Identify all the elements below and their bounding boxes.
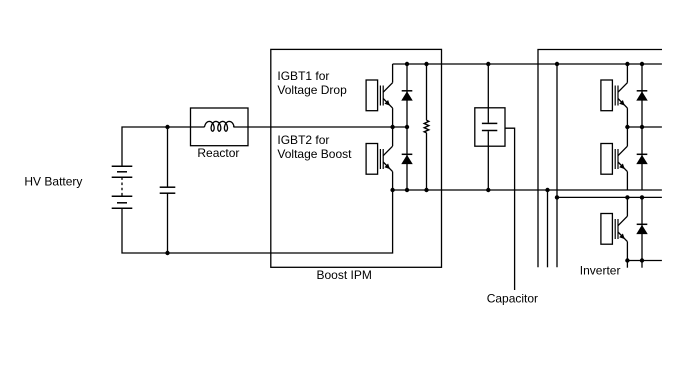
wire: leg3 bottom rail y=260.5 — [627, 260, 662, 262]
wire: coil to IGBT midpoint node — [233, 126, 407, 128]
node: phase U / diode — [640, 125, 644, 129]
diode D3 (inverter leg 1) — [637, 91, 648, 101]
wire: inverter leg 2 diode rail — [641, 127, 643, 190]
filter capacitor C1 — [160, 187, 176, 193]
node: leg3 rail to DC+ bus — [555, 195, 559, 199]
node: DC+ / capacitor C2 — [486, 62, 490, 66]
wire: inverter leg 3 diode rail — [641, 197, 643, 260]
wire: freewheel diode leg — [406, 64, 408, 190]
node: phase U / IGBT — [625, 125, 629, 129]
wire: inverter leg 1 IGBT rail — [626, 64, 628, 83]
node: DC+ / leg1 IGBT — [625, 62, 629, 66]
node: midpoint at IGBT rail — [390, 125, 394, 129]
node: DC+ bus junction — [555, 62, 559, 66]
IGBT Q3 (inverter leg 1) — [601, 80, 628, 111]
wire: inverter leg 3 IGBT rail — [626, 197, 628, 216]
IGBT Q1 (IGBT1 for voltage drop) — [366, 80, 393, 111]
node: leg3 bottom / diode — [640, 258, 644, 262]
svg-text:Boost IPM: Boost IPM — [317, 268, 372, 282]
IGBT Q2 (IGBT2 for voltage boost) — [366, 144, 393, 175]
bus bar: DC+ drop x=557 — [556, 64, 558, 267]
svg-text:Inverter: Inverter — [580, 264, 621, 278]
node: leg3 top / diode — [640, 195, 644, 199]
node: DC+ / leg1 diode — [640, 62, 644, 66]
wire: IGBT1 collector/emitter rail — [392, 108, 394, 127]
wire: filter capacitor C1 legs — [167, 127, 169, 187]
node: DC+ / diode D1 — [405, 62, 409, 66]
bus bar: DC- drop x=547.5 — [547, 190, 549, 267]
node: leg3 top / IGBT — [625, 195, 629, 199]
reactor box — [191, 108, 249, 146]
svg-text:Voltage Boost: Voltage Boost — [277, 147, 352, 161]
node: DC- / resistor R1 — [424, 188, 428, 192]
wire: battery positive (top-left) to reactor — [122, 127, 205, 166]
IGBT Q5 (inverter leg 3) — [601, 214, 628, 245]
resistor R1 zigzag — [424, 120, 429, 133]
Boost IPM enclosure box — [271, 49, 442, 267]
inverter box (top and left edges) — [538, 50, 662, 268]
smoothing capacitor C2 box — [475, 108, 505, 146]
node: leg3 bottom / IGBT — [625, 258, 629, 262]
node: DC- / capacitor C2 — [486, 188, 490, 192]
wire: IGBT2 collector/emitter rail — [392, 127, 394, 146]
inductor L1 (reactor coil) — [204, 121, 234, 131]
wire: DC- bottom rail — [393, 189, 662, 191]
diode D2 (freewheel, lower) — [402, 154, 413, 164]
wire: phase output rail y=127 — [627, 126, 662, 128]
smoothing capacitor C2 plates — [482, 123, 497, 130]
wire: inverter leg3 top rail — [557, 196, 662, 198]
node: battery- / C1 junction — [165, 251, 169, 255]
node: battery+ / C1 junction — [165, 125, 169, 129]
svg-text:Reactor: Reactor — [197, 146, 239, 160]
svg-text:Voltage Drop: Voltage Drop — [277, 83, 347, 97]
wire: inverter leg 2 IGBT rail — [626, 127, 628, 146]
wire: resistor R1 legs — [426, 64, 428, 120]
HV battery B1 — [112, 166, 133, 208]
svg-text:HV Battery: HV Battery — [24, 175, 82, 189]
wire: capacitor C2 bottom leg — [487, 131, 489, 190]
svg-text:IGBT2 for: IGBT2 for — [277, 133, 329, 147]
diode D5 (inverter leg 3) — [637, 224, 648, 234]
node: DC- / IGBT rail — [390, 188, 394, 192]
wire: capacitor C2 top leg — [487, 64, 489, 123]
svg-text:Capacitor: Capacitor — [487, 292, 538, 306]
node: midpoint at diode rail — [405, 125, 409, 129]
IGBT Q4 (inverter leg 2) — [601, 144, 628, 175]
diode D1 (freewheel, upper) — [402, 91, 413, 101]
node: DC- bus junction — [545, 188, 549, 192]
wire: inverter leg 1 diode rail — [641, 64, 643, 127]
leader line to Capacitor label — [505, 128, 515, 290]
diode D4 (inverter leg 2) — [637, 154, 648, 164]
node: DC- / diode rail — [405, 188, 409, 192]
wire: leg3 IGBT stub below rail — [626, 261, 628, 268]
wire: battery negative (bottom-left) return — [122, 190, 393, 253]
wire: leg3 diode stub below rail — [641, 261, 643, 268]
svg-text:IGBT1 for: IGBT1 for — [277, 69, 329, 83]
wire: DC+ top rail — [393, 63, 662, 65]
node: DC+ / resistor R1 — [424, 62, 428, 66]
